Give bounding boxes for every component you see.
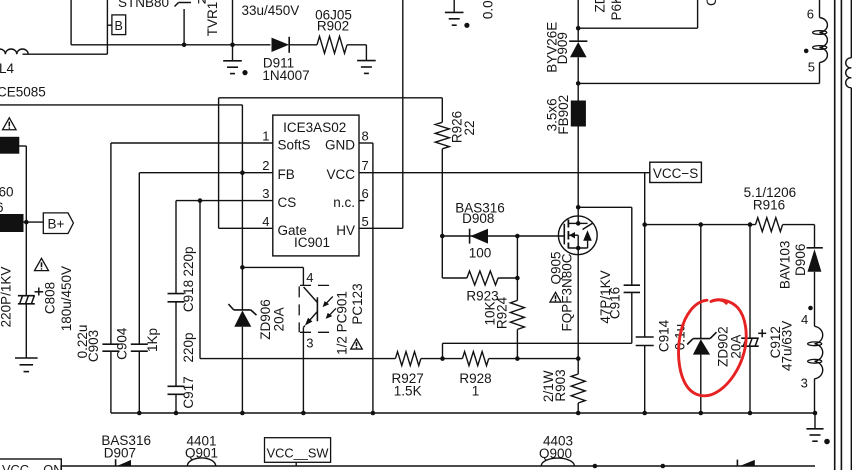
svg-text:C903: C903 <box>86 330 101 362</box>
svg-text:C904: C904 <box>115 327 130 360</box>
svg-text:R903: R903 <box>553 369 568 401</box>
svg-text:Q901: Q901 <box>185 445 218 460</box>
svg-text:6: 6 <box>807 7 814 22</box>
svg-text:220P/1KV: 220P/1KV <box>0 267 14 328</box>
svg-text:220p: 220p <box>181 246 196 276</box>
svg-text:4: 4 <box>262 214 269 229</box>
svg-text:C918: C918 <box>181 280 196 312</box>
svg-text:22: 22 <box>462 120 477 135</box>
svg-text:6: 6 <box>362 186 369 201</box>
svg-text:5: 5 <box>808 59 815 74</box>
svg-text:1.5K: 1.5K <box>394 384 422 399</box>
svg-text:VCC__ON: VCC__ON <box>2 462 62 470</box>
svg-text:47u/63V: 47u/63V <box>780 321 795 371</box>
svg-text:6: 6 <box>0 200 4 215</box>
svg-text:33u/450V: 33u/450V <box>242 3 300 18</box>
svg-text:5: 5 <box>362 214 369 229</box>
svg-text:VCC__SW: VCC__SW <box>267 446 330 461</box>
svg-text:BAV103: BAV103 <box>778 241 793 290</box>
svg-text:0.0: 0.0 <box>481 0 496 19</box>
svg-text:20A: 20A <box>272 307 287 331</box>
svg-text:D908: D908 <box>462 211 494 226</box>
svg-text:P6KE: P6KE <box>609 0 624 21</box>
svg-text:1: 1 <box>472 384 480 399</box>
svg-text:C916: C916 <box>608 287 623 319</box>
svg-text:R916: R916 <box>753 198 785 213</box>
svg-text:D906: D906 <box>793 244 808 276</box>
svg-text:Gate: Gate <box>278 223 307 238</box>
svg-text:D907: D907 <box>104 446 136 461</box>
svg-text:n.c.: n.c. <box>333 195 355 210</box>
svg-text:C917: C917 <box>181 376 196 408</box>
svg-text:8: 8 <box>362 129 369 144</box>
svg-text:HV: HV <box>336 223 355 238</box>
svg-text:STNB80: STNB80 <box>118 0 169 10</box>
svg-text:FB: FB <box>278 167 295 182</box>
svg-text:Q900: Q900 <box>539 446 572 461</box>
svg-text:CS: CS <box>278 195 297 210</box>
svg-text:PC123: PC123 <box>350 283 365 324</box>
svg-text:FQPF3N80C: FQPF3N80C <box>560 253 575 331</box>
svg-text:3: 3 <box>801 376 808 391</box>
svg-text:FB902: FB902 <box>556 95 571 135</box>
svg-text:CE5085: CE5085 <box>0 85 46 100</box>
svg-text:VCC−S: VCC−S <box>653 166 698 181</box>
svg-text:7: 7 <box>362 158 369 173</box>
svg-text:C808: C808 <box>43 282 58 314</box>
svg-text:L4: L4 <box>0 61 15 76</box>
svg-text:ZD: ZD <box>593 0 608 13</box>
svg-text:SoftS: SoftS <box>278 138 311 153</box>
svg-text:1Kp: 1Kp <box>145 328 160 352</box>
svg-text:R924: R924 <box>495 296 510 329</box>
svg-text:60: 60 <box>0 185 14 200</box>
svg-text:2: 2 <box>262 158 269 173</box>
svg-text:VCC: VCC <box>326 167 355 182</box>
svg-text:R902: R902 <box>317 19 349 34</box>
svg-text:100: 100 <box>469 246 492 261</box>
svg-text:1: 1 <box>262 129 269 144</box>
svg-text:C9: C9 <box>704 0 719 6</box>
svg-text:4: 4 <box>306 270 313 285</box>
svg-text:220p: 220p <box>181 332 196 362</box>
svg-text:D909: D909 <box>555 32 570 64</box>
svg-text:1N4007: 1N4007 <box>262 68 309 83</box>
svg-text:180u/450V: 180u/450V <box>59 266 74 331</box>
svg-text:3: 3 <box>262 186 269 201</box>
svg-text:B: B <box>115 19 123 33</box>
svg-text:1/2 PC901: 1/2 PC901 <box>335 291 350 355</box>
svg-text:C914: C914 <box>657 319 672 352</box>
svg-text:TVR1: TVR1 <box>205 2 220 37</box>
svg-text:4: 4 <box>801 312 808 327</box>
svg-text:ICE3AS02: ICE3AS02 <box>283 120 346 135</box>
svg-text:GND: GND <box>325 138 355 153</box>
svg-text:3: 3 <box>306 336 313 351</box>
svg-text:B+: B+ <box>48 216 65 231</box>
